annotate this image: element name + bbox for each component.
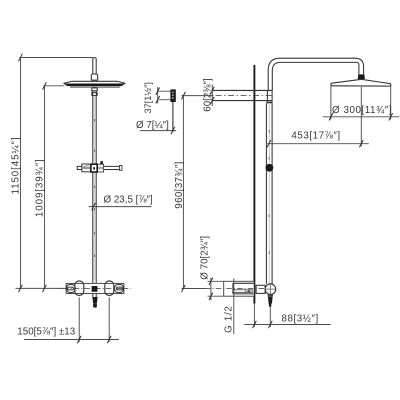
svg-text:37[1½″]: 37[1½″] [143, 82, 153, 113]
svg-text:Ø 70[2¾″]: Ø 70[2¾″] [199, 236, 210, 280]
svg-text:960[37¾″]: 960[37¾″] [174, 161, 185, 208]
svg-text:60[2⅜″]: 60[2⅜″] [203, 78, 214, 112]
svg-text:Ø 23,5 [⅞″]: Ø 23,5 [⅞″] [104, 194, 153, 205]
svg-text:1150[45¼″]: 1150[45¼″] [11, 136, 22, 194]
svg-text:88[3½″]: 88[3½″] [282, 313, 319, 324]
svg-text:150[5⅞″] ±13: 150[5⅞″] ±13 [17, 326, 75, 337]
svg-text:453[17⅞″]: 453[17⅞″] [291, 130, 340, 141]
svg-text:Ø 300[11¾″]: Ø 300[11¾″] [332, 105, 392, 116]
svg-text:G 1/2: G 1/2 [223, 305, 234, 332]
svg-text:Ø 7[¼″]: Ø 7[¼″] [136, 120, 169, 131]
svg-text:1009[39¾″]: 1009[39¾″] [34, 158, 45, 217]
